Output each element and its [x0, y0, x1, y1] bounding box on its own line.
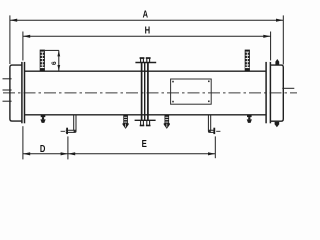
center flange bottom bolt left	[140, 120, 145, 126]
left channel cover (cap)	[10, 65, 22, 121]
center flange bottom rim	[135, 119, 156, 121]
dimension D/E shared extension	[67, 136, 69, 159]
bottom elbow nozzle right	[208, 115, 214, 132]
center flange pair	[142, 63, 148, 120]
dimension H line	[23, 32, 271, 61]
left cap tick 3	[3, 100, 12, 102]
dimension A line	[10, 15, 283, 64]
svg-text:6: 6	[51, 61, 58, 65]
dimension D left extension	[22, 126, 24, 159]
left cap tick 1	[3, 78, 12, 80]
dimension H arrowheads	[23, 35, 30, 38]
right end cap	[271, 65, 284, 121]
center flange top rim	[135, 62, 156, 64]
top nozzle N2 (right)	[245, 50, 250, 71]
dimension A arrowheads	[10, 19, 17, 22]
dimension E right extension	[214, 136, 216, 158]
shell bottom line	[25, 114, 266, 116]
dimension H right extension	[270, 32, 272, 61]
dimension A left extension	[9, 15, 11, 64]
left flange (tubesheet)	[22, 62, 25, 123]
center flange top bolt right	[146, 57, 151, 62]
bottom elbow nozzle left	[66, 115, 76, 132]
elbow left flange face	[66, 128, 68, 134]
elbow right flange face	[213, 128, 215, 134]
top nozzle N1 (left)	[40, 50, 45, 71]
dimension 6 (nozzle stand-out)	[45, 50, 59, 71]
svg-text:H: H	[145, 26, 151, 37]
elbow right corner fill	[208, 130, 211, 133]
nameplate	[171, 79, 212, 104]
dimension E arrowheads	[68, 152, 75, 155]
elbow right centerline dash	[216, 130, 220, 132]
diamond plug right of center flange	[164, 115, 170, 129]
svg-text:A: A	[143, 10, 149, 21]
elbow left corner fill	[74, 130, 77, 133]
right cap tick	[282, 87, 294, 89]
small drain plug bottom-left	[40, 115, 45, 123]
dimension D/E line	[23, 126, 215, 159]
small drain plug bottom-right	[247, 115, 252, 123]
vent plug on right cap	[275, 59, 279, 65]
diamond plug left of center flange	[123, 115, 129, 129]
center flange bottom bolt right	[146, 120, 151, 126]
dimension D arrowheads	[23, 152, 30, 155]
dimension H left extension	[22, 32, 24, 61]
right flange (tubesheet)	[266, 62, 270, 123]
drain plug under right cap	[275, 122, 280, 128]
nameplate corner rivets	[172, 81, 209, 103]
dimension A right extension	[282, 15, 284, 64]
svg-text:E: E	[142, 139, 147, 150]
elbow left centerline dash	[61, 130, 66, 132]
center flange top bolt left	[140, 57, 145, 62]
left cap tick 2	[3, 89, 12, 91]
shell top line	[25, 70, 266, 72]
centerline (vessel axis)	[3, 92, 297, 94]
svg-text:D: D	[40, 144, 46, 155]
